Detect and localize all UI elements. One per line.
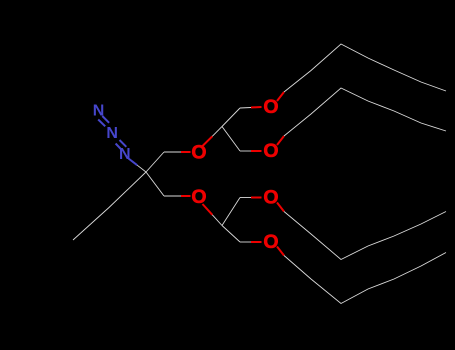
double bond N2=N3 (116, 140, 127, 150)
svg-text:O: O (263, 187, 278, 209)
bond Oa-C2 red half (203, 136, 213, 146)
bond CH2a-Oa gray half (164, 151, 181, 153)
bond CH2a-Oa red half (181, 151, 191, 153)
bond Ob-C3 carbon half (212, 215, 222, 226)
double bond N1=N2 (98, 116, 109, 126)
bond CH2b-Ob red half (181, 195, 191, 197)
bond Oa-C2 carbon half (212, 127, 222, 137)
bond CH2c-Oc red half (251, 106, 262, 109)
svg-text:O: O (263, 96, 278, 118)
bond CH2c-Oc gray half (240, 107, 251, 110)
chain R2 from Od red half (277, 136, 284, 145)
bond CH2f-Of red half (251, 241, 262, 243)
svg-text:O: O (263, 231, 278, 253)
chain R1 from Oc red half (277, 92, 284, 101)
ethyl tail C1-CH2-CH3 (73, 172, 146, 240)
node C1 quaternary carbon; bond C1-CH2a (146, 152, 164, 172)
bond CH2e-Oe gray half (240, 197, 251, 199)
bond CH2e-Oe red half (251, 197, 262, 199)
chain R4 alkyl (284, 253, 446, 304)
svg-text:N: N (106, 125, 118, 142)
bond C1-CH2b (146, 172, 164, 196)
node C3; bond C3-CH2e (222, 198, 240, 226)
bond CH2f-Of gray half (240, 241, 251, 243)
bond Ob-C3 red half (203, 204, 213, 215)
bond N3-C1 carbon half (137, 165, 146, 172)
bond N3-C1 blue half (129, 159, 138, 166)
chain R1 alkyl (284, 44, 446, 92)
bond C2-CH2d (222, 127, 240, 152)
chain R4 from Of red half (277, 247, 284, 256)
chain R3 from Oe red half (277, 203, 284, 212)
node C2; bond C2-CH2c (222, 108, 240, 127)
bond CH2d-Od red half (251, 150, 262, 152)
chain R2 alkyl (284, 88, 446, 136)
chain R3 alkyl (284, 212, 446, 260)
bond C3-CH2f (222, 226, 240, 243)
bond CH2b-Ob gray half (164, 195, 181, 197)
svg-text:O: O (263, 140, 278, 162)
bond CH2d-Od gray half (240, 150, 251, 152)
